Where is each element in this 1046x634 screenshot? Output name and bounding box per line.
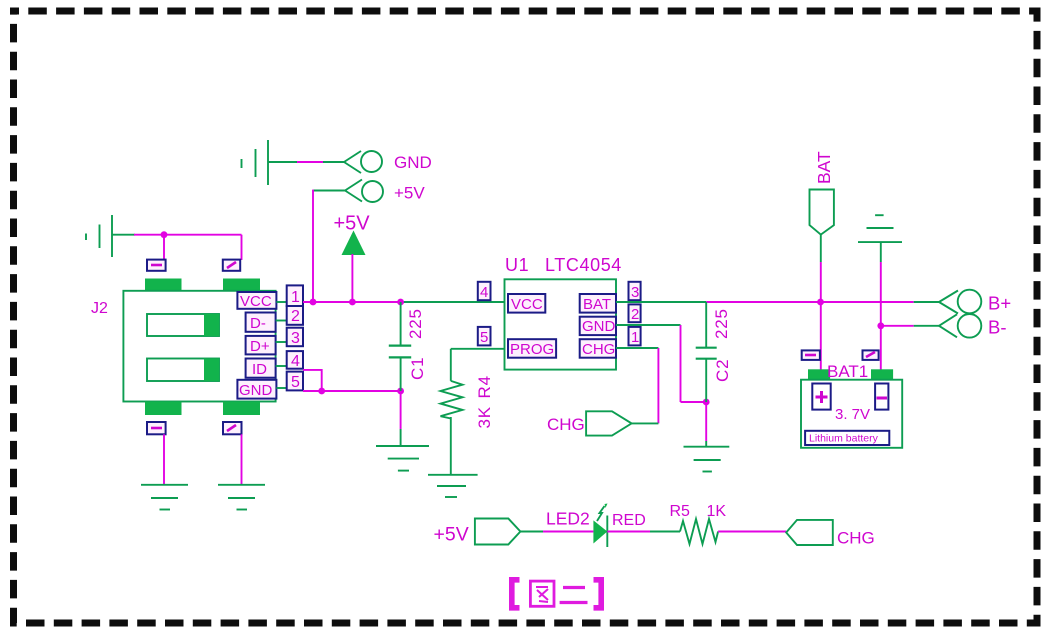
svg-text:+5V: +5V [434,524,469,546]
capacitor C1 [389,302,411,446]
wire ground to J2 shield tabs [134,231,242,260]
svg-text:U1: U1 [505,255,529,275]
svg-text:J2: J2 [91,300,108,317]
svg-text:CHG: CHG [547,415,585,434]
junction BAT flag [817,299,824,306]
J2 shield tab bottom-left [145,402,182,416]
ground (C1) [376,446,429,471]
svg-text:225: 225 [406,308,425,339]
svg-text:3: 3 [631,284,639,301]
connector flag +5V [345,180,425,203]
battery tab + [808,369,830,379]
wire pin5 GND net [303,390,401,392]
svg-text:PROG: PROG [510,341,554,358]
J2 pin label D+ [246,336,276,355]
svg-text:VCC: VCC [511,296,543,313]
junction rail/+5V arrow [349,299,356,306]
svg-text:225: 225 [712,308,731,339]
svg-text:BAT: BAT [583,296,611,313]
svg-text:GND: GND [582,318,616,335]
wire into B+ connector (green) [914,301,939,303]
J2 pin label D- [246,313,276,333]
svg-text:B+: B+ [988,293,1011,314]
svg-text:Lithium battery: Lithium battery [809,433,879,445]
svg-text:VCC: VCC [240,293,272,310]
J2 slot 2 [147,359,219,382]
J2 pin number 2 [287,306,303,325]
svg-text:R5: R5 [670,503,691,520]
net flag BAT [810,151,835,235]
J2 pin label ID [246,359,276,379]
J2 pin label VCC [237,292,276,310]
pad label box (J2 shield bottom-right) [223,422,242,434]
U1 pin number 2 [629,304,641,323]
svg-text:3: 3 [291,330,300,347]
connector B+ [939,290,1011,314]
svg-text:GND: GND [394,153,432,172]
ground (top, to GND flag) [242,140,299,185]
U1 pin number 1 [629,327,641,346]
wire stub pin1 [276,301,287,303]
svg-text:CHG: CHG [837,529,875,548]
svg-text:LTC4054: LTC4054 [545,255,622,275]
svg-text:4: 4 [291,353,300,370]
net flag CHG (at U1) [547,411,632,435]
svg-text:ID: ID [252,361,267,378]
connector flag GND [344,151,432,173]
svg-text:5: 5 [291,374,300,391]
J2 pin number 3 [287,328,303,347]
wire rail C1 to U1 VCC (green) [401,301,505,303]
J2 pin number 4 [287,351,303,370]
pad label box (battery -) [863,350,879,360]
ground (C2) [684,447,730,472]
svg-text:D-: D- [250,315,266,332]
junction pin4/pin5 [318,388,325,395]
wire BAT net U1 to C2 (green) [616,301,706,303]
svg-text:3. 7V: 3. 7V [835,406,870,423]
svg-text:4: 4 [480,284,488,301]
U1 pin number 4 [478,282,491,301]
svg-text:2: 2 [631,306,639,323]
wire J2 shield right to ground [241,434,243,485]
wire BAT flag to rail and battery + [820,235,822,370]
wire +5V rail (magenta part) [303,301,401,303]
pad label box (J2 shield top-left) [147,260,166,271]
junction rail/+5V flag [310,299,317,306]
wire +5V flag to LED [520,531,593,533]
pad label box (J2 shield bottom-left) [147,422,166,434]
net flag CHG (bottom) [786,520,875,548]
wire inverted ground to B- and battery - [880,242,882,369]
J2 shield tab bottom-right [223,402,260,416]
ground (inverted, battery -) [858,215,902,242]
connector B- [939,314,1007,338]
wire stub pin3 [276,341,287,343]
wire ground to GND flag [297,161,344,163]
J2 pin number 1 [287,285,303,306]
wire pin4 bend to pin5 net [303,370,322,391]
wire stub pin4 [276,365,287,367]
J2 shield tab top-right [223,279,260,292]
svg-text:B-: B- [988,317,1007,338]
wire +5V flag to rail [313,190,345,302]
U1 pin label CHG [580,339,616,358]
power symbol +5V arrow [334,213,371,303]
svg-text:RED: RED [612,512,646,529]
U1 pin label PROG [508,339,556,358]
U1 pin label BAT [580,294,616,313]
svg-text:3K: 3K [475,406,494,428]
svg-text:BAT1: BAT1 [827,362,868,381]
svg-text:LED2: LED2 [546,509,590,529]
svg-text:R4: R4 [475,375,494,398]
J2 pin label GND [237,380,276,399]
U1 pin number 5 [478,327,491,346]
LED LED2 RED [546,504,646,548]
J2 pin number 5 [287,372,303,391]
svg-text:5: 5 [480,329,488,346]
pad label box (battery +) [802,350,820,360]
svg-text:C2: C2 [713,359,732,382]
ground (J2 shield left) [141,485,188,510]
wire CHG net U1 pin1 to CHG flag [616,348,658,423]
wire stub pin5 [276,387,287,389]
svg-text:GND: GND [239,382,273,399]
battery tab - [871,369,893,379]
svg-text:C1: C1 [408,357,427,380]
junction C2 bottom [703,399,710,406]
resistor R4 [441,349,505,475]
svg-text:+5V: +5V [334,213,371,235]
wire GND net U1 pin2 to C2 bottom [616,325,706,402]
svg-text:CHG: CHG [582,341,615,358]
op IC U1 LTC4054 [505,255,622,370]
net flag +5V (bottom) [434,519,521,546]
junction pin5/C1 [397,388,404,395]
svg-text:D+: D+ [250,338,270,355]
battery BAT1 body [801,380,902,448]
U1 pin number 3 [629,282,641,301]
wire B- net [877,322,939,329]
svg-text:1: 1 [291,289,300,306]
caption 图二 (Figure 2) [512,580,601,608]
wire R5 to CHG flag [718,531,786,533]
svg-text:+5V: +5V [394,184,425,203]
wire stub pin2 [276,320,287,322]
battery type label box [805,431,889,445]
connector J2 body [123,291,275,402]
battery + terminal box [812,384,830,410]
wire LED to R5 [607,531,680,533]
wire J2 shield left to ground [163,434,165,485]
J2 shield tab top-left [145,279,182,292]
svg-text:BAT: BAT [814,151,834,184]
wire BAT net C2 to B+ (magenta) [706,301,914,303]
junction rail/C1 [397,299,404,306]
ground (J2 shield right) [218,485,265,510]
U1 pin label VCC [508,294,545,313]
J2 slot 1 [147,314,219,336]
pad label box (J2 shield top-right) [223,260,240,271]
capacitor C2 [696,302,717,447]
battery - terminal box [875,384,888,410]
svg-text:2: 2 [291,308,300,325]
resistor R5 1K [670,503,727,544]
ground (near J2) [86,215,135,257]
svg-text:1: 1 [631,329,639,346]
U1 pin label GND [580,317,616,335]
ground (R4) [428,475,478,497]
